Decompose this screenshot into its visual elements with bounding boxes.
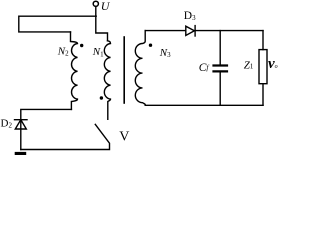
svg-text:Cf: Cf [199, 62, 210, 74]
svg-text:N2: N2 [57, 45, 69, 57]
svg-text:N3: N3 [159, 47, 171, 59]
svg-text:D3: D3 [184, 10, 196, 22]
svg-text:D2: D2 [1, 117, 13, 129]
svg-text:U: U [101, 0, 111, 13]
svg-text:V: V [119, 129, 129, 144]
svg-text:N1: N1 [92, 46, 104, 58]
svg-text:Z1: Z1 [244, 59, 254, 71]
svg-text:vo: vo [268, 56, 278, 72]
